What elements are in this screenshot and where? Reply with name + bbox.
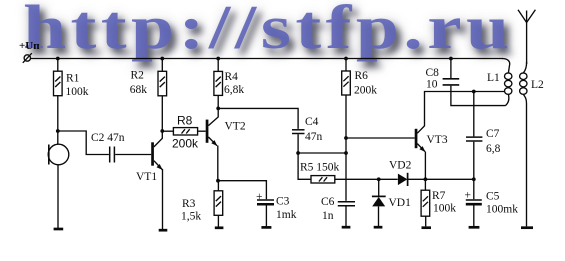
svg-text:R3: R3: [182, 198, 196, 210]
svg-text:C4: C4: [305, 116, 319, 128]
ground C3: [261, 226, 271, 229]
capacitor C5 polarized: [465, 179, 519, 215]
ground mic: [54, 228, 64, 231]
wire emitter node to C3: [218, 181, 266, 200]
wire base R6 to VT3: [346, 137, 415, 139]
svg-text:R4: R4: [225, 71, 239, 83]
wire R4 bottom to VT2 collector node: [217, 95, 219, 109]
node collector-C7: [472, 90, 476, 94]
ground C6: [342, 226, 351, 229]
resistor R2: [130, 59, 167, 97]
ground L2: [521, 226, 533, 229]
resistor R3: [181, 181, 223, 223]
wire R3 to ground: [217, 215, 219, 226]
capacitor C6: [321, 196, 355, 222]
wire R1 bottom to mic node: [57, 96, 59, 145]
svg-text:L1: L1: [487, 72, 500, 84]
capacitor C7: [466, 92, 501, 180]
svg-text:100k: 100k: [433, 203, 456, 215]
svg-text:1,5k: 1,5k: [181, 211, 201, 223]
svg-text:47n: 47n: [305, 131, 323, 143]
node rail-R2: [160, 57, 164, 61]
watermark http://stfp.ru: [23, 0, 565, 64]
svg-text:R7: R7: [432, 190, 446, 202]
wire VD1 to ground: [378, 206, 380, 226]
wire VD2 to emitter node and C5: [408, 178, 474, 180]
node rail-C8: [449, 57, 453, 61]
resistor R8: [162, 114, 205, 151]
resistor R7: [421, 179, 456, 216]
node R6-VT3 base: [344, 136, 348, 140]
wire C8 bottom to L1 bottom: [451, 86, 506, 106]
svg-text:VT3: VT3: [427, 134, 448, 146]
resistor R1: [54, 59, 89, 99]
svg-text:R5 150k: R5 150k: [300, 162, 340, 174]
capacitor C8: [426, 59, 460, 91]
svg-text:R6: R6: [355, 70, 369, 82]
ground C5: [469, 226, 480, 229]
node rail-R1: [56, 57, 60, 61]
node VT3 emitter / R7: [424, 177, 428, 181]
svg-text:VD1: VD1: [389, 197, 412, 209]
svg-text:100k: 100k: [66, 86, 89, 98]
wire top supply rail: [31, 58, 503, 60]
svg-text:200k: 200k: [354, 84, 377, 96]
power terminal +Un: [19, 40, 40, 63]
inductor L1: [487, 59, 512, 106]
diode VD1: [372, 179, 411, 209]
svg-text:R1: R1: [66, 73, 80, 85]
wire C3 to ground: [265, 205, 267, 226]
node R1-mic-C2: [56, 129, 60, 133]
ground VT1: [159, 229, 168, 232]
transistor VT1: [136, 131, 163, 183]
svg-text:+: +: [256, 191, 263, 203]
wire R2 bottom to node: [161, 96, 163, 131]
wire mic node to C2: [58, 131, 109, 155]
node VD1 tap: [377, 177, 381, 181]
wire R5 to VD2: [335, 178, 398, 180]
wire C4 bottom to node: [297, 134, 299, 153]
inductor L2: [520, 62, 544, 226]
node R2-R8-VT1col: [160, 129, 164, 133]
node rail-R6: [344, 57, 348, 61]
svg-text:C3: C3: [276, 196, 290, 208]
svg-text:1n: 1n: [322, 210, 334, 222]
wire C5 to ground: [473, 205, 475, 226]
svg-text:6,8: 6,8: [486, 143, 501, 155]
svg-text:1mk: 1mk: [276, 209, 297, 221]
svg-text:VD2: VD2: [389, 160, 412, 172]
wire C6 to ground: [345, 206, 347, 226]
wire node to R6 line: [298, 152, 346, 154]
svg-text:L2: L2: [531, 79, 544, 91]
svg-text:200k: 200k: [172, 136, 199, 150]
wire R6 bottom down to C6: [345, 95, 347, 201]
node C7-C5: [472, 177, 476, 181]
capacitor C2: [91, 132, 125, 163]
antenna WA1: [518, 10, 535, 64]
svg-text:+: +: [465, 189, 472, 201]
transistor VT2: [206, 109, 246, 146]
ground VD1: [374, 226, 383, 229]
wire VT3 collector up and right to L1: [425, 92, 505, 127]
wire VT2 collector to C4: [218, 108, 298, 128]
svg-text:R2: R2: [131, 70, 145, 82]
svg-text:10: 10: [426, 79, 438, 91]
svg-text:VT2: VT2: [225, 121, 246, 133]
wire C2 to VT1 base: [115, 154, 151, 156]
wire VT2 emitter down: [217, 146, 219, 181]
svg-text:68k: 68k: [130, 84, 148, 96]
microphone BM1: [48, 144, 69, 165]
diode VD2: [389, 160, 412, 186]
capacitor C3 polarized: [256, 191, 297, 221]
node VT2 collector: [216, 107, 220, 111]
svg-text:C2 47n: C2 47n: [91, 132, 125, 144]
ground R7: [422, 226, 432, 229]
capacitor C4: [292, 116, 323, 143]
svg-text:C8: C8: [426, 67, 440, 79]
svg-text:C6: C6: [321, 196, 335, 208]
resistor R6: [342, 59, 378, 97]
node rail-R4: [216, 57, 220, 61]
resistor R4: [214, 59, 244, 97]
wire R7 to ground: [425, 216, 427, 226]
node line-R6: [344, 151, 348, 155]
resistor R5: [298, 153, 339, 183]
svg-text:R8: R8: [177, 114, 193, 128]
wire mic to ground: [57, 165, 59, 228]
node C4-R5: [296, 151, 300, 155]
svg-text:100mk: 100mk: [486, 204, 518, 216]
svg-text:6,8k: 6,8k: [224, 84, 244, 96]
svg-text:C7: C7: [486, 128, 500, 140]
wire VT1 emitter to ground: [162, 169, 164, 229]
svg-text:VT1: VT1: [136, 171, 157, 183]
svg-text:C5: C5: [486, 191, 500, 203]
node VT2 emitter / R3 / C3: [216, 179, 220, 183]
transistor VT3: [415, 126, 448, 152]
ground R3: [215, 226, 224, 229]
wire VT3 emitter down: [424, 152, 426, 180]
